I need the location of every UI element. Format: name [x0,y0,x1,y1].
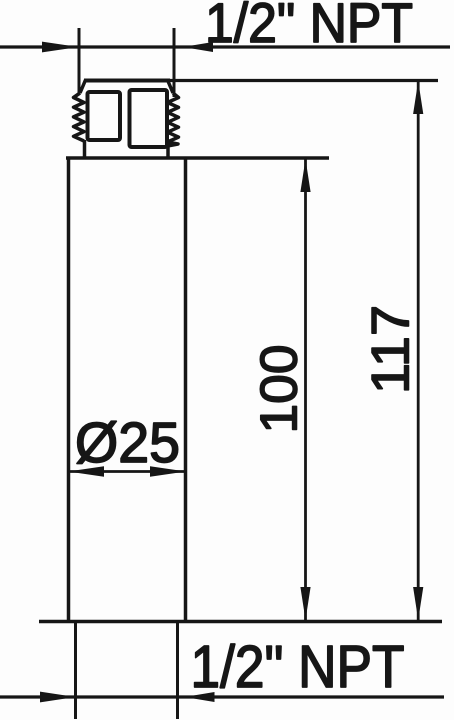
117 dim arrow up [413,81,423,114]
top dim arrow right (points left) [183,42,213,52]
100 dim arrow up [300,159,310,192]
top dimension line [0,45,450,48]
117 dim arrow down [413,587,423,620]
svg-text:100: 100 [251,345,309,434]
bottom dim arrow right (points left) [185,692,215,702]
thread right zigzag [168,93,179,146]
diameter dim line [68,470,186,473]
diameter arrow right (points right) [150,466,186,476]
117 dimension line [417,81,420,620]
bottom dim arrow left (points right) [40,692,76,703]
thread left lower stem [83,140,87,158]
thread right lower stem [166,145,170,158]
svg-text:117: 117 [362,305,421,394]
thread inner left rectangle [88,92,121,140]
body right edge [184,157,188,621]
diameter arrow left (points left) [68,466,104,476]
extension line right of top dim [173,28,176,97]
bottom stub right edge [176,621,179,719]
thread left zigzag [74,93,85,141]
body bottom line [39,620,442,624]
100 dimension line [304,159,307,620]
top dim arrow left (points right) [42,42,79,53]
svg-text:1/2" NPT: 1/2" NPT [191,634,405,700]
body left edge [67,157,71,621]
100 dim arrow down [300,587,310,620]
extension line left of top dim [78,28,81,95]
thread right shoulder [168,80,174,93]
body top line + 100 extension line [66,156,329,159]
thread inner right rectangle [130,90,168,147]
svg-text:Ø25: Ø25 [75,411,180,475]
bottom stub left edge [74,621,77,719]
bottom dimension line [0,695,444,698]
thread top line + 117 extension line [84,79,438,82]
thread left shoulder [80,80,86,93]
